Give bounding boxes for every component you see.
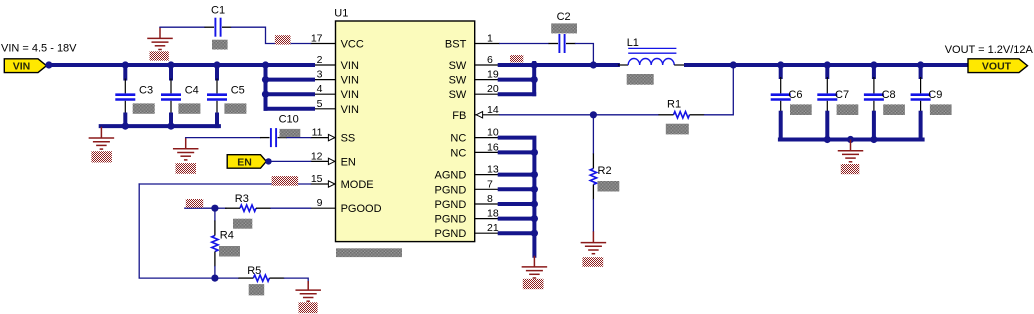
pin 3 line: [311, 79, 336, 81]
junction FB tap: [730, 61, 737, 68]
ground of input cap bank: [89, 127, 115, 149]
wire VIN pin bar: [264, 65, 268, 109]
wire VIN stub pin5: [266, 107, 314, 111]
junction output ground tap: [847, 136, 854, 143]
svg-text:VIN: VIN: [341, 60, 359, 72]
junction C4 tap: [167, 61, 174, 68]
R2 value (redacted): [598, 181, 620, 192]
wire PGND stub pin 8: [500, 202, 535, 206]
C10 ground net (redacted): [176, 163, 197, 174]
svg-text:SW: SW: [449, 75, 467, 87]
junction C6 tap: [777, 61, 784, 68]
R2 ground net (redacted): [582, 257, 603, 267]
wire VIN stub pin3: [266, 78, 314, 82]
wire MODE down left: [139, 184, 215, 278]
net flag EN: [227, 155, 266, 169]
svg-text:VIN: VIN: [341, 104, 359, 116]
capacitor C7: [817, 95, 837, 100]
svg-text:VIN: VIN: [341, 89, 359, 101]
wire C7 top stub: [825, 65, 829, 77]
R1 value (redacted): [666, 124, 689, 135]
wire VOUT rail: [686, 63, 968, 67]
pin 12 line: [311, 160, 336, 162]
svg-text:C4: C4: [185, 84, 199, 96]
wire SW rail: [500, 63, 618, 67]
junction C9 tap: [917, 61, 924, 68]
capacitor C3: [115, 95, 135, 100]
L1 value (redacted): [627, 74, 654, 85]
junction VIN bar pin3: [262, 76, 269, 83]
power flag VOUT: [968, 59, 1028, 73]
pin 15 MODE input arrow: [328, 181, 334, 187]
svg-text:EN: EN: [341, 156, 356, 168]
wire C6 top stub: [779, 65, 783, 77]
wire R2 to ground: [592, 200, 594, 232]
capacitor C8: [864, 95, 884, 100]
svg-text:C6: C6: [788, 89, 802, 101]
svg-text:FB: FB: [452, 110, 466, 122]
wire VIN rail: [49, 63, 313, 67]
svg-text:PGOOD: PGOOD: [341, 203, 382, 215]
svg-text:R3: R3: [235, 193, 249, 205]
C8 bottom lead: [873, 101, 875, 113]
svg-text:R4: R4: [220, 229, 234, 241]
junction bar pin 13: [531, 171, 538, 178]
R5 ground net (redacted): [299, 302, 318, 313]
svg-text:10: 10: [487, 127, 499, 139]
svg-text:R1: R1: [667, 99, 681, 111]
junction C8 tap: [870, 61, 877, 68]
svg-text:5: 5: [317, 98, 323, 110]
pin 17 line: [311, 43, 336, 45]
junction C3 bottom: [122, 123, 129, 130]
C6 top lead: [780, 77, 782, 93]
wire R5 to ground: [284, 278, 308, 283]
resistor R3: [240, 205, 256, 211]
capacitor C6: [771, 95, 791, 100]
svg-text:EN: EN: [237, 156, 252, 168]
svg-text:C8: C8: [882, 89, 896, 101]
input bank ground net (redacted): [91, 151, 112, 162]
C5 bottom lead: [216, 101, 218, 115]
junction SW bar pin19: [531, 76, 538, 83]
ground of output cap bank: [838, 140, 864, 162]
C3 top lead: [124, 79, 126, 94]
svg-text:C10: C10: [279, 113, 299, 125]
wire C6-C9 ground bus: [780, 138, 923, 142]
U1 part number (redacted): [336, 248, 402, 257]
ground at R2: [581, 231, 607, 253]
wire C7 bottom stub: [825, 113, 829, 140]
ground at C1: [147, 27, 173, 49]
output bank ground net (redacted): [841, 164, 860, 174]
svg-text:VOUT: VOUT: [982, 61, 1012, 73]
wire C3 bottom stub: [123, 115, 127, 127]
PGND ground net (redacted): [523, 279, 544, 289]
svg-text:C2: C2: [557, 11, 571, 23]
junction C2 drop: [590, 61, 597, 68]
svg-text:16: 16: [487, 141, 499, 153]
wire PGND stub pin 7: [500, 187, 535, 191]
svg-text:17: 17: [311, 33, 323, 45]
junction bar pin 16: [531, 149, 538, 156]
svg-text:20: 20: [487, 83, 499, 95]
C4 bottom lead: [170, 101, 172, 115]
junction VIN pin bar: [262, 61, 269, 68]
pin 1 line: [475, 43, 500, 45]
C8 value (redacted): [883, 104, 905, 115]
wire BST to C2: [500, 43, 549, 45]
C7 bottom lead: [826, 101, 828, 113]
wire C2 to SW: [576, 44, 594, 64]
wire C3-C5 ground bus: [101, 124, 219, 128]
svg-text:8: 8: [487, 193, 493, 205]
C5 value (redacted): [224, 103, 246, 113]
svg-text:15: 15: [311, 173, 323, 185]
pin 8 line: [475, 203, 500, 205]
wire C8 top stub: [872, 65, 876, 77]
junction C8 bottom: [870, 136, 877, 143]
junction SW bar top: [531, 61, 538, 68]
resistor R5: [253, 275, 269, 281]
C10 value (redacted): [280, 129, 301, 138]
wire R3 to pin 9: [271, 207, 311, 209]
C4 value (redacted): [178, 103, 200, 113]
pin 20 line: [475, 93, 500, 95]
wire SW pin bar: [532, 63, 536, 94]
svg-text:6: 6: [487, 54, 493, 66]
svg-text:VIN = 4.5 - 18V: VIN = 4.5 - 18V: [1, 43, 77, 55]
R3 value (redacted): [233, 219, 252, 229]
wire C1 to VCC pin 17: [232, 27, 311, 43]
wire PGND stub pin 21: [500, 231, 535, 235]
svg-text:L1: L1: [627, 37, 639, 49]
svg-text:SS: SS: [341, 133, 356, 145]
svg-text:C9: C9: [928, 89, 942, 101]
capacitor C10: [271, 128, 276, 147]
junction bar pin 18: [531, 215, 538, 222]
svg-text:SW: SW: [449, 60, 467, 72]
capacitor C4: [161, 95, 181, 100]
R5 value (redacted): [249, 284, 265, 295]
svg-text:SW: SW: [449, 89, 467, 101]
svg-text:3: 3: [317, 69, 323, 81]
wire C4 bottom stub: [169, 115, 173, 127]
junction C7 bottom: [824, 136, 831, 143]
wire junction to R5: [215, 277, 239, 279]
svg-text:C1: C1: [211, 5, 225, 17]
svg-text:1: 1: [487, 33, 493, 45]
C3 bottom lead: [124, 101, 126, 115]
pin 19 line: [475, 79, 500, 81]
svg-text:19: 19: [487, 69, 499, 81]
svg-text:14: 14: [487, 104, 499, 116]
PGOOD net label (redacted): [186, 199, 203, 208]
ground of PGND bar: [522, 256, 548, 278]
pin 18 line: [475, 218, 500, 220]
svg-text:C5: C5: [231, 84, 245, 96]
pin 21 line: [475, 232, 500, 234]
inductor L1: [628, 59, 674, 66]
svg-text:13: 13: [487, 164, 499, 176]
capacitor C2: [559, 34, 564, 53]
pin 2 line: [311, 64, 336, 66]
svg-text:21: 21: [487, 222, 499, 234]
junction bar pin 7: [531, 186, 538, 193]
SW net label (redacted): [510, 55, 523, 62]
C2 value (redacted): [551, 23, 577, 33]
pin 6 line: [475, 64, 500, 66]
junction C4 bottom: [167, 123, 174, 130]
pin 9 line: [311, 207, 336, 209]
wire FB line: [500, 114, 659, 116]
wire C9 top stub: [919, 65, 923, 77]
C4 top lead: [170, 79, 172, 94]
junction C7 tap: [824, 61, 831, 68]
pin 4 line: [311, 93, 336, 95]
wire C5 bottom stub: [215, 115, 219, 127]
svg-text:NC: NC: [450, 147, 466, 159]
wire PGND stub pin 13: [500, 173, 535, 177]
svg-text:PGND: PGND: [435, 228, 467, 240]
wire SW stub pin20: [500, 92, 535, 96]
wire R4 to bottom junction: [214, 267, 216, 279]
svg-text:PGND: PGND: [435, 199, 467, 211]
wire C9 bottom stub: [919, 113, 923, 140]
svg-text:AGND: AGND: [435, 170, 467, 182]
svg-text:PGND: PGND: [435, 184, 467, 196]
C6 value (redacted): [790, 104, 812, 115]
junction VIN bar pin4: [262, 91, 269, 98]
C3 value (redacted): [133, 103, 155, 113]
pin 16 line: [475, 151, 500, 153]
svg-text:R2: R2: [598, 165, 612, 177]
wire SW stub pin19: [500, 78, 535, 82]
C7 top lead: [826, 77, 828, 93]
wire C3 top stub: [123, 65, 127, 79]
wire NC-PGND bar: [500, 138, 535, 256]
svg-text:MODE: MODE: [341, 179, 374, 191]
junction C3 tap: [122, 61, 129, 68]
resistor R1: [674, 112, 690, 118]
inductor L1 right lead: [674, 64, 686, 66]
svg-text:VIN: VIN: [341, 75, 359, 87]
pin 11 line: [311, 137, 336, 139]
junction R4/R5: [211, 275, 218, 282]
svg-text:11: 11: [312, 127, 323, 139]
wire C10 to SS pin 11: [287, 137, 311, 139]
capacitor C9: [911, 95, 931, 100]
C9 bottom lead: [920, 101, 922, 113]
svg-text:NC: NC: [450, 133, 466, 145]
pin 7 line: [475, 188, 500, 190]
pin 14 FB input arrow: [476, 112, 482, 118]
wire EN to pin 12: [268, 160, 310, 162]
junction at EN flag: [265, 158, 271, 164]
inductor L1 core lines: [628, 48, 676, 53]
C6 bottom lead: [780, 101, 782, 113]
R4 value (redacted): [219, 246, 240, 257]
wire C5 top stub: [215, 65, 219, 79]
wire PGOOD net stub: [185, 207, 215, 209]
C1 value (redacted): [212, 40, 228, 50]
svg-text:VIN: VIN: [13, 61, 31, 73]
wire ground to C1: [160, 26, 205, 28]
junction C5 tap: [213, 61, 220, 68]
svg-text:12: 12: [311, 150, 323, 162]
capacitor C1: [215, 18, 220, 37]
svg-text:U1: U1: [334, 8, 348, 20]
wire MODE to pin 15: [139, 183, 310, 185]
C9 value (redacted): [930, 104, 952, 115]
op IC body U1: [336, 21, 475, 242]
svg-text:2: 2: [317, 54, 323, 66]
wire C8 bottom stub: [872, 113, 876, 140]
pin 10 line: [475, 137, 500, 139]
svg-text:BST: BST: [445, 39, 467, 51]
svg-text:9: 9: [317, 197, 323, 209]
wire junction to R4: [214, 208, 216, 220]
ground at R5: [295, 281, 321, 301]
svg-text:4: 4: [317, 83, 323, 95]
C1 ground net (redacted): [150, 51, 169, 60]
inductor L1 left lead: [618, 64, 628, 66]
C5 top lead: [216, 79, 218, 94]
svg-text:7: 7: [487, 178, 493, 190]
junction at VIN flag: [45, 61, 52, 68]
junction bar pin 8: [531, 200, 538, 207]
capacitor C5: [207, 95, 227, 100]
C9 top lead: [920, 77, 922, 93]
VCC net label (redacted): [275, 35, 291, 44]
pin 15 line: [311, 183, 336, 185]
junction R3/R4: [211, 205, 218, 212]
wire ground to C10: [186, 137, 260, 139]
wire PGND stub pin 16: [500, 150, 535, 154]
wire PGND stub pin 18: [500, 217, 535, 221]
junction bar pin 21: [531, 230, 538, 237]
pin 5 line: [311, 108, 336, 110]
resistor R4: [212, 236, 218, 252]
wire VIN stub pin4: [266, 92, 314, 96]
C8 top lead: [873, 77, 875, 93]
wire C4 top stub: [169, 65, 173, 79]
pin 12 EN input arrow: [328, 158, 334, 164]
power flag VIN: [4, 59, 46, 73]
svg-text:PGND: PGND: [435, 214, 467, 226]
resistor R2: [590, 169, 596, 185]
MODE net label (redacted): [272, 176, 299, 186]
pin 14 line: [475, 114, 500, 116]
junction R2 tap: [590, 111, 597, 118]
svg-text:C7: C7: [835, 89, 849, 101]
svg-text:C3: C3: [139, 84, 153, 96]
svg-text:18: 18: [487, 208, 499, 220]
pin 13 line: [475, 174, 500, 176]
svg-text:R5: R5: [247, 265, 261, 277]
wire C6 bottom stub: [779, 113, 783, 140]
svg-text:VOUT = 1.2V/12A: VOUT = 1.2V/12A: [945, 44, 1034, 56]
pin 11 SS input arrow: [328, 134, 334, 140]
ground at C10: [173, 138, 199, 160]
wire R1 to VOUT rail: [705, 67, 734, 115]
wire R2 from FB: [592, 115, 594, 154]
wire junction to R3: [215, 207, 226, 209]
svg-text:VCC: VCC: [341, 39, 364, 51]
C7 value (redacted): [837, 104, 859, 115]
